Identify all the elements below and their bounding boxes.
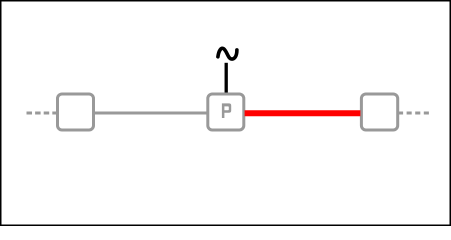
wire B1 to P: [94, 112, 209, 115]
wire energized section (red): [245, 110, 361, 116]
wire dashed left feeder: [27, 112, 59, 115]
box P (feeding point): [208, 94, 244, 130]
wire AC source to P: [225, 63, 228, 96]
AC source symbol (sine): [218, 48, 237, 59]
box B1 (left section block): [58, 94, 94, 130]
label P: [222, 103, 231, 118]
wire dashed right feeder: [398, 112, 429, 115]
box B2 (right section block): [361, 94, 397, 130]
